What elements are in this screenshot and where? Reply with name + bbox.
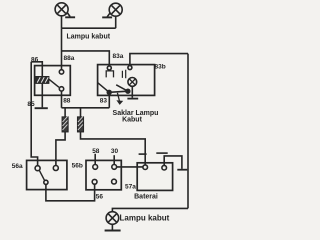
right rail down: [187, 54, 189, 209]
svg-text:88a: 88a: [64, 55, 75, 62]
light switch box: [86, 160, 121, 189]
svg-text:56a: 56a: [12, 163, 23, 170]
ground of left lamp: [65, 12, 75, 17]
wire bus down to relay 88a: [61, 28, 63, 70]
svg-text:88: 88: [63, 98, 71, 105]
rear fog lamp (bottom): [106, 212, 119, 225]
svg-text:83b: 83b: [155, 64, 166, 71]
fog lamp right (top): [109, 3, 122, 16]
relay contact bottom 88: [59, 87, 63, 91]
ground of rear lamp: [105, 230, 121, 232]
switch lever diagonal right: [116, 85, 128, 91]
wire lamp left down: [61, 16, 63, 29]
svg-text:85: 85: [27, 101, 35, 108]
wire lamp right down: [115, 16, 117, 28]
battery minus terminal: [162, 165, 167, 170]
actuation arrow: [116, 93, 123, 105]
stub 58: [94, 154, 96, 165]
svg-text:58: 58: [92, 148, 100, 155]
wire dimmer pivot to light switch 56: [46, 184, 95, 201]
indicator lamp in switch: [128, 78, 137, 87]
ground of indicator lamp: [127, 98, 138, 100]
wire battery minus to ground: [164, 156, 182, 169]
terminal 30: [112, 165, 117, 170]
contact hook under 83a: [106, 71, 113, 78]
svg-text:83a: 83a: [113, 53, 124, 60]
wire coil to 85: [41, 83, 43, 107]
ground of battery: [177, 169, 187, 171]
minus sign bar: [156, 152, 167, 154]
plus sign crossbar: [139, 153, 147, 155]
svg-text:83: 83: [100, 98, 108, 105]
relay contact top 88a: [59, 70, 63, 74]
wire 88 down: [61, 91, 63, 108]
switch bridge bar: [109, 91, 128, 92]
contact ticks under 83b: [122, 70, 125, 79]
switch lever dot left: [107, 90, 111, 94]
terminal 57a: [112, 179, 117, 184]
wire 83 down to bus: [108, 94, 110, 108]
relay box: [35, 66, 71, 96]
wire stub to fuse 2: [80, 108, 82, 117]
wire fuse1 to dimmer: [56, 132, 65, 165]
switch lever dot right: [126, 89, 130, 93]
wire 83b up over to right rail: [130, 54, 188, 66]
dimmer terminal left: [35, 166, 40, 171]
svg-text:Lampu kabut: Lampu kabut: [67, 34, 111, 41]
switch terminal 83a: [107, 66, 111, 70]
wire rear lamp to ground: [111, 224, 113, 230]
terminal 56: [92, 179, 97, 184]
stub 30: [113, 155, 115, 164]
switch lever diagonal left: [98, 83, 110, 93]
wire 30 to battery plus: [117, 166, 143, 168]
dimmer arm: [39, 170, 44, 180]
svg-text:Kabut: Kabut: [122, 117, 143, 124]
fuse 2: [78, 117, 84, 132]
dimmer terminal right: [53, 166, 58, 171]
fog lamp left (top): [55, 3, 68, 16]
wire branch to switch 83a: [62, 51, 110, 66]
svg-text:Baterai: Baterai: [134, 193, 158, 200]
svg-text:30: 30: [111, 148, 119, 155]
wire bus 88 to 83: [62, 107, 110, 109]
battery plus terminal: [143, 165, 148, 170]
ground 85: [35, 107, 48, 109]
battery box: [137, 163, 172, 191]
fuse 1: [62, 117, 68, 132]
svg-text:57a: 57a: [125, 184, 136, 191]
switch box (saklar lampu kabut): [98, 65, 155, 96]
wire coil feed: [41, 66, 43, 77]
svg-text:56b: 56b: [72, 163, 83, 170]
wire stub to fuse 1: [64, 108, 66, 117]
switch terminal 83b: [128, 66, 132, 70]
relay coil: [36, 77, 49, 84]
wire indicator lamp to ground: [131, 86, 133, 98]
terminal 58: [93, 165, 98, 170]
wire rear lamp to right rail: [112, 208, 188, 211]
wire lamp bus: [62, 27, 116, 29]
relay switch arm: [49, 79, 59, 87]
wire terminal 86 jog: [31, 62, 42, 66]
svg-text:Lampu kabut: Lampu kabut: [120, 214, 170, 223]
wire 86 long left run down to dimmer: [31, 62, 37, 166]
dimmer switch box 56a: [27, 160, 67, 189]
wire fuse2 to battery plus: [81, 132, 146, 165]
ground of right lamp: [102, 13, 112, 18]
svg-text:56: 56: [96, 193, 104, 200]
svg-text:86: 86: [31, 56, 39, 63]
dimmer pivot: [44, 180, 48, 184]
